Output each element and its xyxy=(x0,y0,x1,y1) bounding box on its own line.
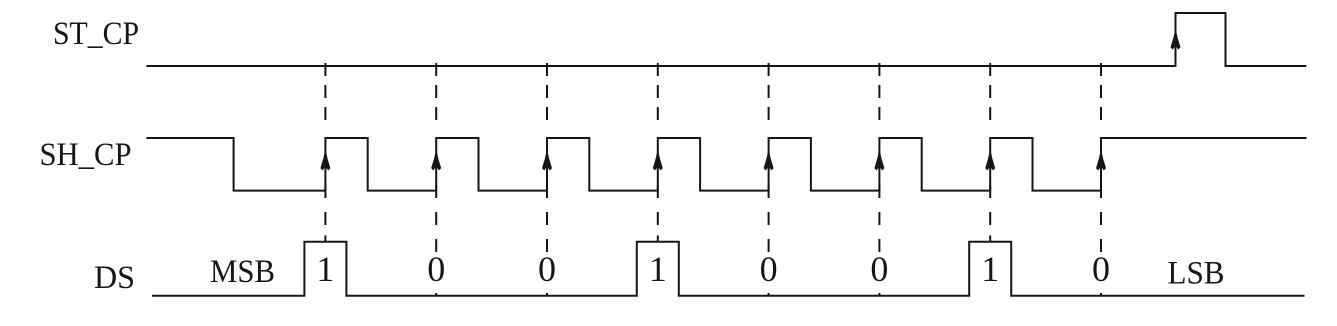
dashed clock-edge line t5 xyxy=(768,63,770,296)
digit background knockouts xyxy=(315,252,1111,290)
svg-text:1: 1 xyxy=(316,249,334,289)
rising-edge arrow on SH_CP pulse 8 xyxy=(1096,149,1106,171)
svg-text:MSB: MSB xyxy=(210,254,275,290)
svg-text:0: 0 xyxy=(870,249,888,289)
SH_CP waveform xyxy=(146,138,1306,191)
dashed clock-edge line t3 xyxy=(546,63,548,296)
dashed clock-edge line t4 xyxy=(657,63,659,242)
rising-edge arrow on SH_CP pulse 5 xyxy=(764,149,774,171)
rising-edge arrow on SH_CP pulse 4 xyxy=(653,149,663,171)
svg-text:0: 0 xyxy=(1092,249,1110,289)
svg-text:DS: DS xyxy=(94,260,135,296)
rising-edge arrow on SH_CP pulse 2 xyxy=(431,149,441,171)
svg-text:ST_CP: ST_CP xyxy=(53,16,139,52)
rising-edge arrow on SH_CP pulse 6 xyxy=(874,149,884,171)
dashed clock-edge line t7 xyxy=(989,63,991,242)
dashed clock-edge line t1 xyxy=(324,63,326,242)
svg-text:SH_CP: SH_CP xyxy=(40,137,132,173)
dashed clock-edge line t8 xyxy=(1100,63,1102,296)
ST_CP waveform xyxy=(146,13,1306,66)
svg-text:0: 0 xyxy=(760,249,778,289)
svg-text:1: 1 xyxy=(649,249,667,289)
dashed clock-edge line t2 xyxy=(435,63,437,296)
rising-edge arrow on SH_CP pulse 1 xyxy=(320,149,330,171)
rising-edge arrow on SH_CP pulse 7 xyxy=(985,149,995,171)
svg-text:0: 0 xyxy=(538,249,556,289)
svg-text:0: 0 xyxy=(427,249,445,289)
DS waveform xyxy=(152,242,1305,296)
rising-edge arrow on SH_CP pulse 3 xyxy=(542,149,552,171)
svg-text:1: 1 xyxy=(981,249,999,289)
rising-edge arrow on ST_CP pulse xyxy=(1171,28,1181,50)
dashed clock-edge line t6 xyxy=(878,63,880,296)
svg-text:LSB: LSB xyxy=(1168,255,1225,291)
